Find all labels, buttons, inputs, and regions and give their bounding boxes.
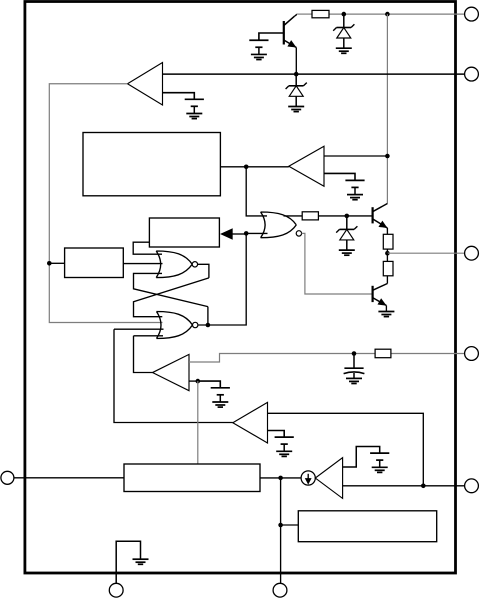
wire U3 lower input to battery (268, 431, 285, 438)
wire node I to R4 (386, 253, 388, 261)
wire node D to block X1 (49, 262, 64, 264)
wire node G to arrowhead (232, 233, 246, 235)
wire cross-couple G1 to G2 (134, 278, 209, 317)
block X1 divider (65, 248, 124, 278)
wire Q1 base (259, 33, 284, 40)
resistor R5 (375, 349, 391, 358)
wire node O to block X5 (281, 524, 299, 526)
wire G2 input from comparator U3 (114, 329, 233, 422)
pin 6 (1, 471, 14, 484)
comparator U1 (128, 63, 163, 106)
wire G1 output (198, 264, 209, 278)
resistor R3 (383, 234, 393, 249)
comparator U4 (153, 354, 190, 390)
node N (421, 484, 426, 489)
wire node M down to pin 8 (280, 478, 282, 583)
inverting output bubble of G4 (296, 231, 301, 236)
node C Q1 emitter / zener junction (294, 72, 299, 77)
wire X3 output to gate G1 top input (133, 242, 162, 254)
capacitor C1 to ground (344, 354, 365, 384)
wire G2 bottom input from comparator U4 output (134, 336, 164, 373)
node A rail-zener junction (342, 12, 347, 17)
pin 7 (109, 583, 123, 597)
battery B6 at U5 input with ground (370, 453, 389, 472)
wire U5 lower input to pin 5 (343, 485, 465, 487)
wire node L down to oscillator block (197, 381, 199, 464)
node H (345, 214, 350, 219)
battery B4 at U4 input with ground (211, 388, 230, 407)
node O (278, 523, 283, 528)
wire pin 7 to internal ground (116, 541, 140, 583)
pin 3 (465, 246, 479, 260)
wire U1 lower input to battery (163, 93, 195, 100)
transistor Q3 (373, 284, 388, 306)
wire R3 to node I (386, 249, 388, 253)
wire G4 output to resistor R2 (284, 215, 303, 217)
node L (196, 379, 201, 384)
wire X1 to G1 middle input (123, 263, 162, 265)
wire Q3 emitter to ground (385, 306, 387, 312)
battery B2 at U1 input with ground (185, 99, 204, 118)
wire R2 to Q2 base (318, 215, 371, 217)
zener diode Z3 (336, 216, 357, 255)
zener diode Z2 (286, 74, 307, 112)
nor-gate G2 (157, 312, 193, 339)
wire U3 top input to pin 5 node (268, 413, 424, 486)
node K timing cap node (352, 351, 357, 356)
wire Q1 emitter to node C (295, 48, 297, 75)
wire pin 6 to X4 (14, 477, 124, 479)
wire pin 4 to R5 (391, 353, 465, 355)
wire node E down to gate G4 input (246, 167, 267, 216)
wire U2 upper input (324, 155, 387, 157)
wire Q2 emitter to R3 (386, 228, 388, 234)
wire G2 output to cross-couple (207, 307, 209, 325)
bubble of G2 (193, 322, 198, 327)
pin 1 (465, 7, 479, 21)
block X3 pulse block (149, 218, 219, 247)
wire Q1 collector elbow (295, 14, 297, 16)
node I emitter sense (385, 251, 390, 256)
wire node L to battery (198, 381, 221, 388)
comparator U2 (289, 146, 324, 186)
node D left loop to divider block (47, 261, 52, 266)
pin 2 (465, 67, 479, 81)
current source CS1 (301, 471, 315, 485)
wire U4 top input from pin 4 net (189, 354, 375, 363)
resistor R2 (302, 212, 318, 220)
comparator U3 (233, 402, 268, 443)
battery B1 at Q1 base with ground (249, 40, 268, 59)
nor-gate G1 (156, 251, 192, 278)
wire X4 to current source (260, 477, 301, 479)
wire pin 2 net (163, 73, 465, 75)
wire node G down to latch output (198, 233, 246, 325)
wire vertical rail to comparator and Q2 collector (386, 14, 388, 203)
buffer U5 (315, 458, 342, 499)
wire R4 to Q3 collector (386, 276, 388, 284)
node J G2 output (206, 323, 211, 328)
block X2 regulator (83, 133, 220, 196)
or-gate G4 output driver (261, 212, 297, 238)
block X4 oscillator (124, 464, 260, 492)
wire cross-couple G2 to G1 (134, 273, 208, 306)
ground at pin 7 (133, 559, 149, 564)
wire supply rail from Q1 collector to pin 1 (296, 13, 464, 15)
transistor Q1 (284, 16, 297, 47)
pin 4 (465, 347, 479, 361)
arrowhead into block X3 (222, 229, 232, 238)
wire U4 lower input (189, 380, 198, 382)
wire U1 output left loop to gate G2 (49, 84, 162, 323)
wire G4 inverted output to Q3 base (302, 233, 372, 294)
wire G4 lower input (246, 232, 267, 234)
resistor R1 (312, 10, 329, 17)
wire node I to pin 3 (387, 252, 464, 254)
pin 8 (273, 583, 287, 597)
node B rail-rail junction (385, 12, 390, 17)
pin 5 (465, 479, 479, 493)
ground at Q3 emitter (378, 312, 394, 317)
block X5 (298, 511, 436, 542)
wire U2 lower input to battery (324, 173, 355, 180)
zener diode Z1 (333, 14, 354, 53)
node F on vertical rail (385, 154, 390, 159)
transistor Q2 (373, 204, 388, 229)
wire X2 output to comparator U2 output node (220, 166, 288, 168)
wire U5 top input to battery (343, 447, 380, 468)
node E (244, 165, 249, 170)
battery B3 at U2 input with ground (345, 180, 364, 199)
resistor R4 (383, 261, 393, 275)
bubble of G1 (192, 262, 197, 267)
battery B5 at U3 input with ground (275, 437, 294, 456)
node M (278, 476, 283, 481)
node G (244, 231, 249, 236)
